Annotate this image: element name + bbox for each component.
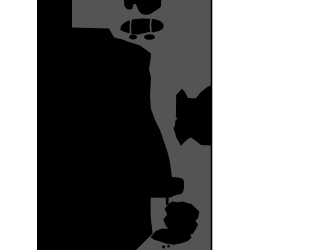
islets below row 2 xyxy=(129,35,137,40)
map detail: land (black) / water (gray) over white page xyxy=(0,0,250,250)
archipelago main cluster xyxy=(163,202,199,236)
bottom tiny dots xyxy=(162,246,165,249)
island row 2 (middle smudge) xyxy=(120,19,164,35)
white page background xyxy=(0,0,250,250)
big bottom island E xyxy=(151,228,192,245)
gray water body xyxy=(72,0,211,250)
small knob island below band xyxy=(166,197,169,205)
gray channel in row 2 right xyxy=(150,19,152,32)
island row 1 (top smudge) xyxy=(124,0,161,15)
gray channel in row 2 left xyxy=(130,20,132,34)
right-edge black blob xyxy=(174,86,211,146)
black land content area xyxy=(37,0,212,250)
